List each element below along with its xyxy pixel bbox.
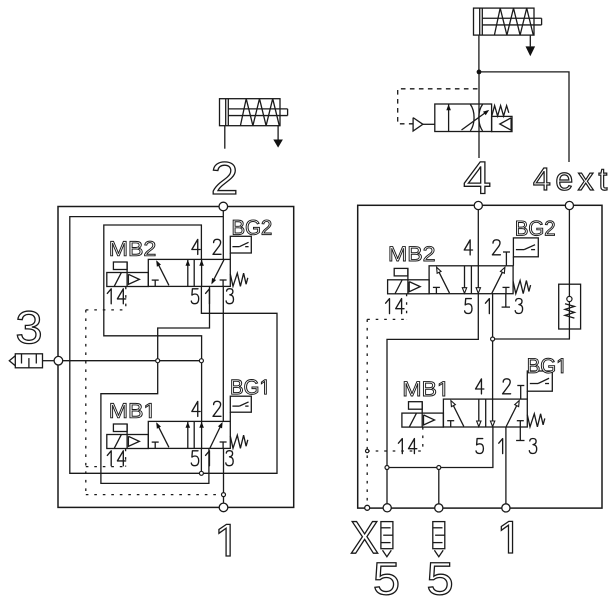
node label 5 (second silencer) bbox=[428, 563, 451, 595]
wire - right cylinder port down to junction bbox=[478, 36, 480, 72]
node label 1 (left assembly) bbox=[219, 524, 230, 556]
pin label 14 of right MB1 bbox=[398, 439, 402, 454]
wire - MB2(right) port 5 exhaust route bbox=[387, 294, 478, 468]
cylinder actuator (output 4, single-acting with spring return) bbox=[474, 8, 535, 35]
adjustable restrictor arcs bbox=[470, 104, 474, 131]
valve MB2 (left) 5/2-way body bbox=[148, 259, 230, 286]
junction - pilot riser branch (dashed) bbox=[366, 449, 369, 452]
pilot port X connector bbox=[365, 505, 370, 510]
sensor BG1 (left) box bbox=[230, 396, 251, 412]
MB1 (right) left cell blocked port bbox=[450, 421, 452, 427]
sensor label BG1 (right) bbox=[528, 358, 563, 373]
node label 4ext bbox=[534, 168, 607, 190]
wire - node B to MB1 port 4 bbox=[201, 361, 203, 422]
plug on port 3 of right MB2 bbox=[505, 294, 507, 307]
MB1 (left) left cell blocked port bbox=[154, 442, 156, 448]
junction MB1.5 tap bbox=[199, 471, 203, 475]
wire - silencer to output 3 bbox=[43, 360, 55, 362]
MB2 (left) right cell blocked port bbox=[222, 280, 224, 286]
MB2 (left) flow arrow bbox=[187, 259, 189, 286]
solenoid pilot coil of MB2 (right) (with manual override) bbox=[388, 280, 430, 294]
pin label 4 of left MB1 bbox=[192, 401, 200, 416]
node label 4 bbox=[464, 162, 489, 194]
return spring of MB1 (left) bbox=[230, 435, 248, 448]
wire - MB1 port 5 drop bbox=[200, 448, 202, 473]
silencer on output 3 bbox=[15, 354, 42, 368]
pin label 4 of right MB1 bbox=[476, 379, 484, 394]
valve MB2 (right) 5/2-way body bbox=[429, 266, 513, 294]
MB1 (left) flow arrow bbox=[201, 421, 203, 448]
wire - exhaust rail 3 bbox=[58, 360, 201, 362]
pin label 5 of left MB1 bbox=[191, 451, 198, 466]
wire - node A to MB1 port 1 bbox=[101, 361, 209, 484]
spring of timer valve bbox=[492, 106, 509, 116]
junction node A bbox=[156, 359, 160, 363]
plug on port 3 of right MB1 bbox=[519, 427, 521, 441]
pin label 4 of right MB2 bbox=[464, 240, 472, 255]
wire - MB2 port 4 routing loop to node B bbox=[104, 225, 202, 361]
MB2 (left) right cell flow path (diagonal) bbox=[212, 260, 224, 283]
pin label 2 of left MB1 bbox=[213, 401, 221, 416]
node label 5 (first silencer) bbox=[375, 563, 398, 595]
return spring of MB2 (right) bbox=[513, 281, 531, 294]
MB1 (right) flow arrow (down) bbox=[492, 399, 494, 427]
return spring of MB2 (left) bbox=[230, 273, 248, 286]
pin label 3 of left MB2 bbox=[226, 289, 233, 304]
sensor label BG2 bbox=[233, 220, 271, 235]
pin label 2 of right MB2 bbox=[492, 240, 500, 255]
solenoid pilot coil of MB2 (left) (with manual override) bbox=[107, 273, 149, 287]
cylinder actuator (output 2, single-acting with spring return) bbox=[220, 99, 281, 126]
output port 5b connector bbox=[435, 504, 443, 512]
exhaust arrow of right cylinder bbox=[529, 36, 531, 47]
MB1 (left) right cell flow path (diagonal) bbox=[210, 423, 222, 448]
wire - MB2 port 3 to MB1 port 2 bbox=[222, 286, 224, 421]
exhaust arrow of left cylinder bbox=[277, 126, 279, 140]
pin label 5 of left MB2 bbox=[191, 289, 198, 304]
wire - MB2(right) port 1 down to node / MB1 port 4 bbox=[492, 294, 494, 399]
MB1 (left) flow arrow bbox=[187, 421, 189, 448]
pilot input triangle bbox=[413, 118, 423, 131]
solenoid pilot coil of MB1 (left) (with manual override) bbox=[107, 435, 149, 449]
pin label 1 of right MB2 bbox=[485, 299, 489, 314]
enclosure box of left valve terminal bbox=[58, 207, 294, 508]
MB2 (right) left cell blocked port bbox=[435, 287, 437, 293]
valve MB1 (left) 5/2-way body bbox=[148, 421, 230, 448]
MB1 (right) right cell blocked port bbox=[519, 421, 521, 427]
MB1 (right) right cell flow path (diagonal) bbox=[506, 402, 518, 427]
pin label 2 of left MB2 bbox=[213, 239, 221, 254]
pilot line (dashed) right - MB2 branch bbox=[406, 294, 408, 320]
wire - MB1 port 3 to output 1 bbox=[223, 448, 225, 503]
sensor BG2 (right) box bbox=[513, 238, 538, 257]
output port 2 connector bbox=[219, 202, 228, 211]
silencer on output 5a bbox=[381, 522, 393, 549]
node label 2 bbox=[213, 162, 236, 194]
wire - MB2 port 1 to node A bbox=[158, 286, 210, 360]
output port 5a connector bbox=[383, 504, 391, 512]
solenoid pilot coil of MB1 (right) (with manual override) bbox=[402, 413, 444, 427]
air pilot box of timer valve bbox=[492, 116, 512, 131]
node label 1 (right assembly) bbox=[501, 521, 512, 553]
wire - output 2 line down to valve MB2 port 2 bbox=[222, 211, 224, 260]
pin label 14 of right MB2 bbox=[386, 299, 390, 314]
MB2 (right) flow arrow (down) bbox=[477, 266, 479, 294]
output port 3 connector bbox=[54, 356, 63, 365]
pin label 3 of left MB1 bbox=[226, 451, 233, 466]
wire - exhaust header to MB1(right) port 5 bbox=[387, 427, 493, 468]
junction - exhaust header left bbox=[385, 466, 389, 470]
MB2 (right) right cell blocked port bbox=[505, 287, 507, 293]
plug on port 2 of right MB1 bbox=[520, 386, 522, 400]
MB2 (right) right cell flow path (diagonal) bbox=[492, 269, 504, 294]
sensor label BG1 bbox=[232, 380, 267, 395]
sensor BG1 (right) box bbox=[527, 371, 552, 391]
MB1 (left) right cell blocked port bbox=[222, 442, 224, 448]
junction pilot supply tap bbox=[222, 493, 226, 497]
pilot line (dashed) right - main riser bbox=[366, 319, 368, 505]
reference label MB2 (right) bbox=[390, 246, 434, 261]
reference label MB2 bbox=[111, 241, 155, 256]
pilot control line (dashed) of timer valve bbox=[398, 89, 478, 124]
MB2 (left) flow arrow bbox=[201, 259, 203, 286]
wire - node to check valve to output 4ext bbox=[493, 210, 570, 340]
wire - left cylinder port stub to node 2 bbox=[224, 126, 226, 149]
wire - line 4 down through timer valve to label bbox=[478, 72, 480, 158]
plug on port 2 of right MB2 bbox=[505, 252, 507, 266]
junction dot at cylinder line bbox=[477, 70, 482, 75]
wire - exhaust drop to silencer output 5b bbox=[438, 468, 440, 504]
wire - ports 5 manifold loop (MB2.5 / MB1.5 to output 2 line) bbox=[70, 217, 277, 474]
MB1 (left) left cell flow path (diagonal) bbox=[157, 424, 169, 448]
MB2 (right) flow arrow (down) bbox=[464, 266, 466, 294]
pilot line (dashed) right - MB1 branch bbox=[367, 450, 423, 452]
pilot line (dashed) - MB2 pilot 14 branch bbox=[86, 309, 126, 311]
adjustment arrow bbox=[462, 111, 488, 130]
enclosure box of right valve terminal bbox=[358, 205, 602, 508]
sensor label BG2 (right) bbox=[516, 221, 554, 236]
reference label MB1 (right) bbox=[404, 382, 445, 396]
wire - branch to 4ext bbox=[479, 72, 569, 162]
MB2 (right) left cell flow path (diagonal) bbox=[437, 269, 449, 293]
node label X bbox=[351, 522, 377, 554]
pin label 3 of right MB1 bbox=[529, 439, 536, 454]
output port 4 connector bbox=[474, 201, 482, 209]
pin label 14 of left MB2 bbox=[107, 289, 111, 304]
node label 3 bbox=[17, 311, 40, 344]
wire - output 4 down to MB2 port 4 / through to port 5 route bbox=[477, 210, 479, 266]
pin label 1 of right MB1 bbox=[499, 439, 503, 454]
check valve with spring (to 4ext) bbox=[559, 284, 581, 329]
wire - exhaust drop to silencer output 5a bbox=[386, 468, 388, 504]
pin label 1 of left MB1 bbox=[206, 451, 210, 466]
MB1 (right) left cell flow path (diagonal) bbox=[452, 402, 464, 426]
output port 1 connector (right) bbox=[502, 504, 510, 512]
reference label MB1 bbox=[111, 403, 152, 417]
sensor BG2 (left) box bbox=[230, 236, 251, 253]
return spring of MB1 (right) bbox=[527, 414, 545, 427]
output port 4ext connector bbox=[565, 201, 573, 209]
pilot line (dashed) - main riser bbox=[85, 310, 87, 495]
pin label 5 of right MB2 bbox=[465, 299, 472, 314]
pin label 3 of right MB2 bbox=[515, 299, 522, 314]
MB2 (left) left cell flow path (diagonal) bbox=[157, 262, 169, 286]
pin label 5 of right MB1 bbox=[476, 439, 483, 454]
pin label 14 of left MB1 bbox=[107, 451, 111, 466]
pilot line (dashed) - MB1 pilot 14 branch bbox=[86, 466, 126, 468]
wire - MB1(right) port 1 to output 1 bbox=[505, 427, 507, 504]
output port 1 connector bbox=[219, 503, 228, 512]
pilot line (dashed) - supply tap at output 1 line bbox=[86, 494, 224, 496]
pin label 4 of left MB2 bbox=[192, 239, 200, 254]
MB1 (right) flow arrow (down) bbox=[478, 399, 480, 427]
silencer on output 5b bbox=[433, 522, 445, 549]
junction - check valve branch bbox=[491, 337, 495, 341]
timer/throttle valve on line 4 bbox=[435, 104, 492, 132]
pin label 2 of right MB1 bbox=[503, 379, 511, 394]
pin label 1 of left MB2 bbox=[206, 289, 210, 304]
junction - exhaust header right tap bbox=[437, 466, 441, 470]
MB2 (left) left cell blocked port bbox=[154, 280, 156, 286]
junction node B bbox=[199, 359, 203, 363]
valve MB1 (right) 5/2-way body bbox=[443, 399, 527, 427]
